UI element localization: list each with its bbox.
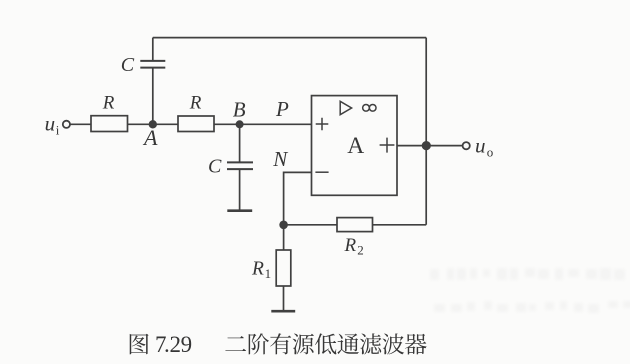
op-amp - input symbol bbox=[315, 171, 328, 173]
op-amp infinity symbol bbox=[363, 104, 370, 111]
wire op-amp output bbox=[397, 145, 462, 147]
op-amp + input symbol bbox=[316, 118, 329, 131]
input terminal ui bbox=[63, 121, 70, 128]
wire R2 to output vertical bbox=[373, 224, 427, 226]
op-amp ideal triangle symbol bbox=[340, 101, 351, 114]
wire top feedback horizontal bbox=[153, 37, 426, 39]
svg-text:u: u bbox=[475, 134, 486, 158]
caption figure number 图 7.29 bbox=[130, 334, 149, 355]
svg-text:B: B bbox=[233, 98, 246, 122]
svg-text:9: 9 bbox=[181, 332, 193, 357]
svg-text:2: 2 bbox=[170, 332, 182, 357]
wire right vertical feedback bbox=[425, 38, 427, 225]
wire capacitor C to ground bbox=[239, 170, 241, 210]
svg-text:i: i bbox=[56, 122, 60, 137]
op-amp + output symbol bbox=[380, 138, 395, 153]
ground (under R1) bbox=[271, 310, 295, 313]
output terminal uo bbox=[463, 142, 470, 149]
resistor R (second) bbox=[178, 116, 214, 132]
ground (under shunt C) bbox=[227, 209, 252, 212]
wire R1 to ground bbox=[283, 286, 285, 310]
svg-text:N: N bbox=[272, 147, 288, 171]
svg-text:A: A bbox=[347, 133, 364, 159]
svg-text:C: C bbox=[208, 155, 222, 177]
svg-text:R: R bbox=[344, 235, 357, 256]
wire op-amp - input to node N branch bbox=[284, 172, 312, 224]
svg-text:o: o bbox=[487, 145, 494, 160]
wire node to R2 bbox=[284, 224, 337, 226]
output node junction dot bbox=[422, 141, 431, 150]
resistor R1 bbox=[276, 250, 291, 286]
svg-text:2: 2 bbox=[357, 242, 364, 257]
capacitor C (shunt) plates bbox=[227, 162, 253, 169]
svg-text:u: u bbox=[45, 112, 56, 136]
caption title 二阶有源低通滤波器 bbox=[225, 333, 426, 354]
op-amp A box bbox=[312, 96, 398, 196]
wire node B down to capacitor C bbox=[239, 124, 241, 162]
resistor R2 bbox=[337, 218, 373, 232]
wire node A up to capacitor C bbox=[152, 68, 154, 124]
wire node down to R1 bbox=[283, 225, 285, 250]
node A junction dot bbox=[149, 120, 157, 128]
svg-text:R: R bbox=[189, 93, 202, 114]
wire R to op-amp + input bbox=[214, 123, 312, 125]
capacitor C (feedback) plates bbox=[140, 61, 165, 68]
wire input to R bbox=[70, 123, 91, 125]
svg-text:A: A bbox=[142, 125, 158, 150]
feedback node junction dot bbox=[279, 221, 288, 230]
resistor R (input) bbox=[91, 116, 128, 132]
node B junction dot bbox=[236, 120, 244, 128]
svg-text:R: R bbox=[102, 93, 115, 114]
svg-text:P: P bbox=[275, 97, 289, 121]
wire R to node A bbox=[128, 123, 179, 125]
svg-text:C: C bbox=[121, 54, 135, 76]
svg-text:1: 1 bbox=[265, 266, 272, 281]
svg-text:R: R bbox=[251, 259, 264, 280]
wire capacitor C to top feedback wire bbox=[152, 38, 154, 60]
